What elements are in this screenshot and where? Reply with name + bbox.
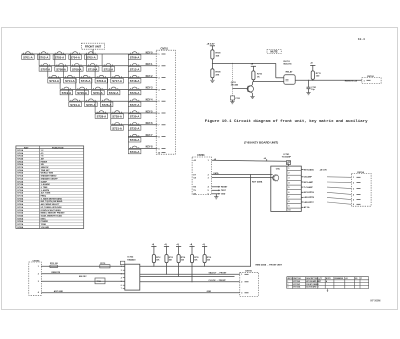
svg-text:1: 1	[158, 54, 160, 56]
svg-text:S717-A: S717-A	[112, 80, 122, 83]
IC701 output LED-RPTB	[301, 196, 303, 198]
svg-text:8: 8	[158, 137, 160, 139]
supply +B bar	[210, 45, 215, 47]
key matrix column wires row 4	[59, 78, 61, 90]
svg-text:DESCRIPTION: DESCRIPTION	[306, 278, 318, 280]
junction C701	[308, 80, 309, 81]
key row 3 wire	[48, 77, 158, 79]
key switch S705	[87, 53, 95, 54]
resistor R716	[203, 255, 206, 263]
svg-text:1: 1	[208, 160, 209, 162]
resistor R701	[50, 265, 58, 268]
svg-text:SCAN, MEMORY SCAN: SCAN, MEMORY SCAN	[41, 214, 63, 217]
filter CF701	[100, 265, 110, 268]
svg-text:1: 1	[288, 168, 289, 170]
svg-text:DOWN SCAN TUNING: DOWN SCAN TUNING	[41, 209, 62, 212]
svg-text:CN705: CN705	[33, 260, 41, 262]
svg-text:2: 2	[287, 284, 288, 286]
svg-text:1 2: 1 2	[41, 150, 44, 152]
svg-text:S702A: S702A	[17, 152, 24, 155]
svg-text:3: 3	[208, 177, 209, 179]
svg-text:47K: 47K	[216, 73, 220, 76]
key switch S707	[41, 65, 49, 66]
key switch S730	[130, 112, 138, 113]
wire ANT GND bus	[41, 292, 240, 294]
svg-text:S715A: S715A	[17, 189, 24, 192]
key switch S731	[113, 124, 121, 125]
svg-text:CN703: CN703	[197, 155, 205, 157]
svg-text:1, ALARM: 1, ALARM	[41, 183, 50, 186]
svg-text:KEY-6: KEY-6	[146, 122, 154, 125]
svg-text:10: 10	[288, 210, 290, 212]
resistor R709	[211, 50, 214, 59]
svg-text:+B 5.8V: +B 5.8V	[207, 43, 216, 45]
svg-text:S719-A: S719-A	[62, 92, 72, 95]
svg-text:S731-A: S731-A	[112, 127, 122, 130]
key matrix column wires row 6	[94, 101, 96, 113]
svg-text:+B: +B	[251, 64, 254, 66]
svg-text:CLOCK → FRONT: CLOCK → FRONT	[209, 280, 227, 282]
svg-text:5: 5	[158, 101, 160, 103]
svg-text:S726-A: S726-A	[102, 104, 112, 107]
svg-text:AF GL: AF GL	[304, 206, 311, 209]
svg-text:DT: DT	[193, 174, 196, 176]
IC701 output T-CLAMP	[301, 186, 303, 188]
key switch S717	[113, 76, 121, 77]
key switch S706	[130, 53, 138, 54]
svg-text:9: 9	[158, 148, 160, 150]
svg-text:MT-726F: MT-726F	[293, 284, 300, 286]
svg-text:S718-A: S718-A	[130, 80, 140, 83]
connector CN702	[362, 78, 381, 84]
ic IC701 body	[271, 166, 302, 211]
connector CN701	[156, 50, 175, 154]
svg-text:+B 5.8V: +B 5.8V	[320, 169, 328, 171]
svg-text:3: 3	[288, 178, 289, 180]
svg-text:CB-AMP: CB-AMP	[304, 176, 313, 179]
IC701 output AF GL	[301, 206, 303, 208]
wire R714 down	[178, 263, 180, 277]
svg-text:R701 220: R701 220	[50, 263, 58, 265]
svg-text:6: 6	[158, 113, 160, 115]
svg-text:S713-A: S713-A	[49, 80, 59, 83]
svg-text:GND: GND	[221, 194, 226, 196]
svg-text:B1: B1	[355, 278, 357, 280]
svg-text:S716A: S716A	[17, 192, 24, 195]
wire CN703 aux GND	[212, 193, 219, 195]
svg-text:TC9128P: TC9128P	[282, 156, 292, 158]
svg-text:S707A: S707A	[17, 166, 24, 169]
svg-text:5: 5	[208, 190, 209, 192]
svg-text:2: 2	[208, 174, 209, 176]
svg-text:1K: 1K	[257, 76, 260, 78]
key row 7 wire	[111, 124, 158, 126]
key switch S733	[130, 135, 138, 136]
key switch S711	[104, 65, 112, 66]
key matrix right column bus	[127, 54, 129, 148]
connector CN703	[192, 157, 212, 195]
svg-text:AUX BOARD: AUX BOARD	[306, 286, 317, 289]
key switch S727	[130, 100, 138, 101]
svg-text:10K: 10K	[216, 55, 220, 57]
svg-text:8: 8	[288, 201, 289, 203]
svg-text:S723A: S723A	[17, 212, 24, 215]
svg-text:S722-A: S722-A	[109, 92, 119, 95]
svg-text:S729-A: S729-A	[112, 116, 122, 119]
svg-text:FRONT PANEL: FRONT PANEL	[306, 283, 318, 286]
transistor in IC701	[273, 175, 279, 181]
IC702 left pins	[123, 265, 125, 267]
svg-text:S711A: S711A	[17, 177, 23, 180]
svg-text:SSB/CW: SSB/CW	[41, 167, 49, 169]
svg-text:KEY-4: KEY-4	[146, 99, 154, 102]
key table outer	[16, 146, 84, 229]
key switch S714	[66, 76, 74, 77]
svg-text:S720A: S720A	[17, 203, 24, 206]
key switch S728	[97, 112, 105, 113]
svg-text:1: 1	[364, 80, 366, 82]
svg-text:SW: SW	[41, 164, 44, 166]
svg-text:S722A: S722A	[17, 209, 24, 212]
svg-text:S710A: S710A	[17, 175, 24, 178]
ground below C703	[231, 100, 233, 102]
wire R709 to R708	[211, 59, 213, 69]
wire T-CLAMP to CN704	[327, 187, 351, 189]
svg-text:S709-A: S709-A	[72, 68, 82, 71]
svg-text:S716-A: S716-A	[97, 80, 107, 83]
svg-text:S708-A: S708-A	[56, 68, 66, 71]
key switch S719	[62, 88, 70, 89]
svg-text:R709: R709	[216, 53, 222, 55]
wire R710 to relay	[252, 80, 254, 82]
svg-text:S720-A: S720-A	[77, 92, 87, 95]
key switch S704	[71, 53, 79, 54]
svg-text:S. WAVE METER BAND: S. WAVE METER BAND	[41, 197, 63, 200]
svg-text:CF701: CF701	[100, 263, 105, 265]
svg-text:S721A: S721A	[17, 206, 24, 209]
svg-text:5: 5	[353, 200, 354, 202]
wire aux bus	[140, 275, 235, 277]
svg-text:PART NO.: PART NO.	[293, 277, 301, 280]
svg-text:S718A: S718A	[17, 197, 24, 200]
key row 8 wire	[128, 136, 157, 138]
svg-text:5: 5	[288, 187, 289, 189]
ground below C701	[308, 89, 310, 93]
svg-text:4: 4	[38, 291, 40, 294]
Q701 collector wire	[252, 82, 254, 85]
svg-text:S701-A: S701-A	[23, 57, 33, 60]
svg-text:S712A: S712A	[17, 180, 24, 183]
svg-text:LED-RPTC: LED-RPTC	[304, 202, 315, 204]
key switch S716	[97, 76, 105, 77]
wire REM DATA bus	[140, 265, 251, 267]
key switch S718	[130, 76, 138, 77]
svg-text:7: 7	[158, 125, 160, 127]
svg-text:S710-A: S710-A	[88, 68, 98, 71]
svg-text:TONE: TONE	[41, 224, 47, 226]
IC701 output CB-AMP	[301, 176, 303, 178]
svg-text:10K: 10K	[169, 259, 173, 261]
svg-text:ANT GND: ANT GND	[54, 290, 64, 293]
svg-text:1: 1	[241, 274, 242, 276]
svg-text:S732-A: S732-A	[130, 127, 140, 130]
wire REMOTE line	[41, 273, 125, 275]
svg-text:S723-A: S723-A	[130, 92, 140, 95]
wire AM OSC line	[41, 280, 125, 282]
connector CN705	[29, 262, 42, 295]
svg-text:CN706: CN706	[245, 271, 253, 273]
svg-text:S701A: S701A	[17, 149, 24, 152]
svg-text:TIME SET: TIME SET	[41, 170, 51, 172]
svg-text:6: 6	[353, 204, 354, 206]
key row 6 wire	[95, 112, 157, 114]
wire relay output	[295, 79, 362, 81]
svg-text:S714-A: S714-A	[65, 80, 75, 83]
wire CN703 aux TEST	[212, 189, 219, 191]
svg-text:10K: 10K	[181, 259, 185, 261]
svg-text:T701: T701	[97, 281, 101, 283]
capacitor C703	[230, 96, 234, 100]
svg-text:10μ: 10μ	[311, 89, 315, 91]
svg-text:KEY-0: KEY-0	[146, 51, 154, 54]
junction +B tap	[266, 159, 268, 161]
svg-text:R708: R708	[216, 72, 222, 74]
crystal X701	[286, 161, 290, 165]
key row 5 wire	[69, 100, 158, 102]
svg-text:S703-A: S703-A	[55, 57, 65, 60]
svg-text:S714A: S714A	[17, 186, 24, 189]
svg-text:S702-A: S702-A	[39, 57, 49, 60]
ic IC702 body	[125, 264, 140, 290]
svg-text:SELECT → FRONT: SELECT → FRONT	[209, 272, 228, 274]
svg-text:10K: 10K	[194, 259, 198, 261]
svg-text:S707-A: S707-A	[41, 68, 51, 71]
svg-text:10-3: 10-3	[358, 38, 365, 41]
svg-text:Figure 10.1 Circuit diagram of: Figure 10.1 Circuit diagram of front uni…	[205, 119, 368, 124]
key switch S734	[130, 147, 138, 148]
IC701 pin cell lines	[287, 170, 301, 172]
key switch S729	[113, 112, 121, 113]
svg-text:KEY-7: KEY-7	[146, 134, 154, 137]
svg-text:VOLUME: VOLUME	[41, 227, 50, 229]
wire divider junction right	[212, 62, 275, 64]
svg-text:3: 3	[287, 287, 288, 289]
resistor R710	[252, 71, 255, 80]
resistor R714	[177, 255, 180, 263]
key switch S720	[78, 88, 86, 89]
svg-text:GND: GND	[207, 291, 212, 293]
svg-text:S706A: S706A	[17, 163, 24, 166]
wire KEY-AMP to CN704	[327, 181, 351, 184]
wire down to relay	[275, 63, 277, 77]
component T701	[95, 278, 105, 284]
svg-text:KEY BOARD UNIT: KEY BOARD UNIT	[306, 280, 321, 283]
svg-text:FRONT UNIT: FRONT UNIT	[85, 45, 102, 49]
svg-text:1: 1	[287, 281, 288, 283]
svg-text:MEMO, MEMORY PRESET: MEMO, MEMORY PRESET	[41, 213, 66, 215]
key switch S703	[55, 53, 63, 54]
svg-text:S717A: S717A	[17, 195, 24, 198]
svg-text:1: 1	[121, 266, 122, 268]
key switch S701	[24, 53, 32, 54]
wire from FRONT UNIT label	[92, 49, 94, 54]
svg-text:REMARKS: REMARKS	[335, 277, 344, 280]
svg-text:2: 2	[121, 270, 122, 272]
key switch S725	[87, 100, 95, 101]
IC701 output KEY-AMP	[301, 181, 303, 183]
svg-text:S724-A: S724-A	[70, 104, 80, 107]
capacitor C705	[120, 261, 124, 264]
svg-text:CK: CK	[193, 177, 196, 179]
wire CLOCK bus	[140, 281, 240, 283]
svg-text:5: 5	[121, 281, 122, 283]
svg-text:STANDBY MEMO: STANDBY MEMO	[41, 175, 57, 178]
IC701 pin column divider	[286, 166, 288, 211]
svg-text:DATA: DATA	[214, 172, 220, 175]
ground CN703	[215, 194, 217, 197]
wire to Q701 base	[232, 88, 248, 90]
svg-text:+B: +B	[310, 63, 313, 65]
capacitor C701	[308, 80, 310, 87]
svg-text:4: 4	[353, 193, 355, 196]
svg-text:2: 2	[288, 173, 289, 175]
wire R711 down	[312, 78, 314, 81]
svg-text:SLEEP: SLEEP	[41, 181, 48, 183]
relay RL701	[284, 75, 295, 85]
svg-text:KEY-AMP: KEY-AMP	[304, 181, 314, 184]
svg-text:UP, TUNING UP/DOWN: UP, TUNING UP/DOWN	[41, 207, 62, 209]
wire CN703 data	[212, 174, 271, 176]
svg-text:3: 3	[353, 189, 354, 191]
key matrix column wires row 7	[110, 113, 112, 125]
svg-text:EXEC: EXEC	[41, 218, 47, 220]
svg-text:KF 500M: KF 500M	[371, 300, 381, 303]
svg-text:10K: 10K	[156, 259, 160, 261]
svg-text:+B: +B	[202, 244, 205, 246]
resistor R715	[190, 255, 193, 263]
wire CB-AMP to CN704	[327, 176, 351, 179]
svg-text:FREQ: FREQ	[41, 196, 47, 198]
svg-text:T-CLAMP: T-CLAMP	[304, 186, 314, 189]
svg-text:2: 2	[353, 183, 354, 185]
svg-text:+B: +B	[176, 244, 179, 246]
svg-text:S704A: S704A	[17, 157, 24, 160]
svg-text:KB4420: KB4420	[127, 258, 136, 261]
svg-text:MW, TV(JPN) SW BAND: MW, TV(JPN) SW BAND	[41, 200, 63, 203]
svg-text:10: 10	[158, 152, 161, 154]
svg-text:IC702: IC702	[127, 257, 134, 259]
svg-text:CN701: CN701	[161, 47, 169, 50]
svg-text:KEY-5: KEY-5	[146, 110, 154, 113]
svg-text:9: 9	[288, 206, 289, 208]
svg-text:(7-8/9 KEY BOARD UNIT): (7-8/9 KEY BOARD UNIT)	[244, 140, 278, 144]
wire SELECT bus	[140, 273, 240, 275]
svg-text:S704-A: S704-A	[70, 57, 80, 60]
key matrix column wires row 2	[38, 54, 40, 66]
svg-text:KEY-DATA: KEY-DATA	[304, 168, 314, 171]
svg-text:3, AM/PM: 3, AM/PM	[41, 189, 50, 192]
svg-text:OSC: OSC	[276, 169, 281, 171]
wire R713 down	[166, 263, 168, 275]
svg-text:+B: +B	[264, 158, 267, 160]
svg-text:KEY-3: KEY-3	[146, 87, 154, 90]
key table column divider	[39, 146, 41, 229]
svg-text:S705A: S705A	[17, 160, 24, 163]
svg-text:RS: RS	[193, 187, 196, 189]
key switch S732	[130, 124, 138, 125]
IC701 output KEY-DATA	[301, 169, 303, 171]
svg-text:REMOTE +B: REMOTE +B	[345, 80, 358, 82]
key switch S724	[71, 100, 79, 101]
svg-text:6: 6	[208, 194, 209, 196]
svg-text:S719A: S719A	[17, 200, 24, 203]
key row 1 wire	[22, 53, 158, 55]
connector CN704	[351, 173, 371, 206]
svg-text:6: 6	[288, 192, 289, 194]
svg-text:TS: TS	[193, 190, 196, 192]
svg-text:S725A: S725A	[17, 217, 24, 220]
wire CN703 +B to IC701	[212, 160, 287, 161]
svg-text:1: 1	[318, 284, 319, 286]
svg-text:S721-A: S721-A	[93, 92, 103, 95]
key matrix column wires row 3	[47, 66, 49, 78]
svg-text:S733-A: S733-A	[130, 139, 140, 142]
svg-text:2: 2	[158, 66, 160, 68]
svg-text:+B: +B	[193, 160, 196, 162]
svg-text:2SC945: 2SC945	[231, 84, 239, 87]
svg-text:+B: +B	[152, 244, 155, 246]
svg-text:7: 7	[288, 197, 289, 199]
svg-text:REM DATA → FRONT UNIT: REM DATA → FRONT UNIT	[256, 263, 283, 266]
svg-text:S725-A: S725-A	[86, 104, 96, 107]
svg-text:S713A: S713A	[17, 183, 24, 186]
svg-text:S727A: S727A	[17, 223, 24, 226]
label box MUTE	[267, 50, 281, 54]
svg-text:7: 7	[121, 288, 122, 290]
wire LED-RPTC to CN704	[327, 202, 351, 204]
key switch S721	[94, 88, 102, 89]
svg-text:S708A: S708A	[17, 169, 24, 172]
svg-text:S711-A: S711-A	[104, 68, 114, 71]
svg-text:S728A: S728A	[17, 226, 24, 229]
wire mute node down	[231, 63, 233, 96]
svg-text:S728-A: S728-A	[97, 116, 107, 119]
Q701 emitter ground	[252, 93, 254, 96]
resistor R712	[152, 255, 155, 263]
svg-text:S705-A: S705-A	[86, 57, 96, 60]
wire R715 down	[191, 263, 193, 282]
key row 4 wire	[60, 88, 157, 90]
svg-text:4: 4	[288, 182, 290, 185]
svg-text:STANDBY ON/OFF: STANDBY ON/OFF	[41, 177, 59, 180]
wire REM DATA vertical	[250, 175, 252, 267]
svg-text:R710: R710	[257, 74, 263, 76]
svg-text:1: 1	[38, 266, 39, 268]
svg-text:2: 2	[38, 274, 39, 276]
connector CN706	[240, 272, 259, 296]
IC701 output KEY-RPTA	[301, 191, 303, 193]
key row 2 wire	[39, 65, 157, 67]
svg-text:KEY-1: KEY-1	[146, 63, 154, 66]
svg-text:REMOTE: REMOTE	[52, 272, 61, 274]
svg-text:2, TIME: 2, TIME	[41, 187, 48, 189]
svg-text:AM: AM	[41, 157, 44, 160]
svg-text:RESET: RESET	[221, 187, 228, 189]
svg-text:2: 2	[241, 282, 242, 284]
svg-text:1: 1	[318, 281, 319, 283]
label box FRONT UNIT	[82, 43, 105, 49]
key matrix column wires row 5	[68, 89, 70, 101]
